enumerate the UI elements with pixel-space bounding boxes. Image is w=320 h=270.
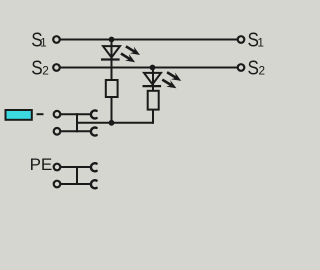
terminal circle group row1 (54, 111, 61, 118)
terminal circle S1 right (238, 36, 245, 43)
clamp contact group row1 (91, 110, 97, 118)
LED D2 arrow 2 (162, 79, 177, 89)
svg-text:S: S (248, 57, 259, 80)
terminal circle S1 left (53, 36, 60, 43)
terminal circle S2 left (53, 64, 60, 71)
svg-text:2: 2 (42, 64, 49, 78)
resistor R2 (148, 91, 159, 110)
wire LED1 branch vertical lower (R1 to rail) (111, 97, 113, 124)
junction dot node B (S2/LED2) (150, 65, 156, 71)
wire group vertical bar (76, 113, 78, 132)
LED D2 arrow 1 (166, 71, 181, 81)
wire dash from marker box (37, 113, 44, 115)
wire group row1 (61, 113, 91, 115)
terminal circle S2 right (238, 64, 245, 71)
wire group row2 (61, 130, 91, 132)
junction dot node A (S1/LED1) (109, 37, 115, 43)
svg-text:S: S (31, 57, 42, 80)
label S1 right (248, 29, 259, 52)
wire LED2 branch vertical lower (R2 to rail) (152, 110, 154, 124)
resistor R1 (106, 80, 118, 97)
wire S2 horizontal (60, 67, 237, 69)
LED D2 cathode bar (143, 85, 162, 87)
LED D1 triangle (103, 46, 120, 57)
label S2 right (248, 57, 259, 80)
wire PE vertical bar (76, 166, 78, 185)
clamp contact PE row1 (91, 163, 97, 171)
LED D1 cathode bar (101, 58, 120, 60)
label S1 left (31, 29, 42, 52)
clamp contact PE row2 (91, 180, 97, 188)
wire bottom rail (77, 122, 153, 124)
wire PE row1 (61, 166, 91, 168)
label S2 left (31, 57, 42, 80)
svg-text:2: 2 (259, 64, 266, 78)
terminal circle PE row2 (54, 181, 61, 188)
junction dot node C (rail/R1) (109, 120, 115, 126)
wire S1 horizontal (60, 39, 237, 41)
svg-text:1: 1 (257, 36, 264, 50)
wire PE row2 (61, 183, 91, 185)
svg-text:1: 1 (40, 36, 47, 50)
LED D1 arrow 2 (120, 52, 135, 62)
LED D1 arrow 1 (125, 45, 140, 55)
wire LED1 branch vertical upper (111, 40, 113, 81)
clamp contact group row2 (91, 128, 97, 136)
LED D2 triangle (144, 73, 161, 84)
wire LED2 branch vertical upper (152, 68, 154, 92)
svg-text:PE: PE (30, 155, 53, 174)
terminal circle PE row1 (54, 164, 61, 171)
terminal circle group row2 (54, 128, 61, 135)
marker box (cyan) (6, 110, 32, 120)
